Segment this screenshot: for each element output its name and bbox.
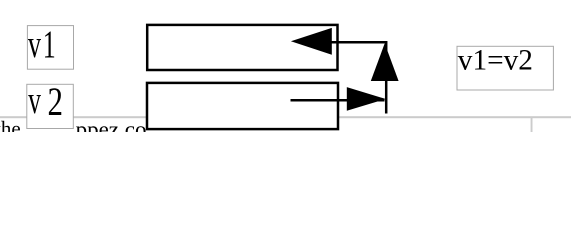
rectangle 2 (bottom cell) [147, 83, 338, 129]
horizontal rule (page divider) [0, 116, 571, 118]
svg-text:the: the [0, 117, 21, 132]
svg-text:v: v [28, 78, 41, 122]
svg-text:v1=v2: v1=v2 [458, 45, 533, 77]
svg-text:2: 2 [48, 79, 64, 124]
label text v2 (letter v) [28, 78, 41, 122]
label box v2 [27, 84, 74, 128]
vertical divider line bottom right [531, 118, 533, 133]
label box v1 [27, 26, 73, 70]
arrow line bottom (out of rect2) [291, 99, 385, 102]
svg-text:v1: v1 [28, 23, 56, 67]
arrowhead left (inside rect1) [291, 28, 332, 55]
arrowhead right (at vertical line) [347, 87, 386, 111]
white patch under rectangle 2 bottom edge [146, 129, 340, 132]
label text v2 (digit 2) [48, 79, 64, 124]
arrowhead up (on vertical line) [371, 43, 399, 81]
result box v1=v2 [457, 46, 553, 90]
arrow line top (into rect1) [330, 42, 386, 113]
rectangle 1 (top cell) [147, 25, 337, 70]
label text v1 [28, 23, 56, 67]
